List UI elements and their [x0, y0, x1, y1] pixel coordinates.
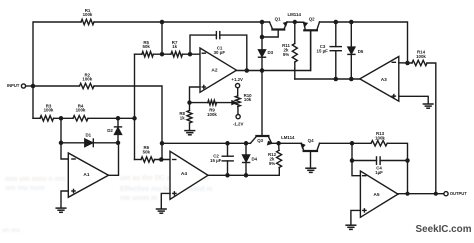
svg-text:+1.2V: +1.2V [231, 77, 243, 82]
wire A3 plus with ground [399, 96, 433, 108]
resistor R6 [141, 145, 155, 162]
label LM114 bottom [281, 135, 295, 140]
terminal INPUT [7, 83, 33, 88]
svg-text:D5: D5 [358, 49, 364, 54]
wire D3 vertical [260, 20, 265, 136]
svg-text:100k: 100k [83, 12, 93, 17]
wire C1 feedback [188, 35, 247, 70]
op-amp A3 [360, 57, 399, 102]
svg-text:Q4: Q4 [308, 138, 314, 143]
resistor R7 [171, 40, 183, 57]
op-amp A2 [200, 48, 237, 92]
wire A1 minus branch [59, 118, 69, 159]
transistor Q3 [250, 136, 271, 144]
wire R5 row [135, 52, 201, 57]
resistor R12 [268, 143, 282, 167]
resistor R1 [81, 8, 94, 25]
svg-text:INPUT: INPUT [7, 83, 20, 88]
capacitor C2 [210, 143, 233, 175]
svg-text:D2: D2 [107, 128, 113, 133]
wire Q3 Q4 row [160, 141, 251, 146]
wire R3R4 row [33, 116, 137, 121]
resistor R5 [142, 40, 153, 57]
wire A5 output row [398, 192, 444, 196]
resistor R8 with ground [179, 103, 194, 135]
svg-text:5%: 5% [283, 52, 289, 57]
svg-text:OUTPUT: OUTPUT [450, 191, 467, 196]
node R8 R9 [187, 100, 191, 104]
resistor R2 [80, 72, 95, 88]
label SeekIC.com [416, 224, 472, 235]
wire top rail and left vertical [33, 22, 408, 118]
svg-text:1k: 1k [172, 44, 177, 49]
svg-text:A3: A3 [381, 77, 387, 83]
svg-text:nm umm m: nm umm m [120, 195, 157, 202]
op-amp A5 [360, 171, 398, 217]
terminal -1.2V [233, 115, 244, 127]
svg-text:Q1: Q1 [275, 16, 281, 21]
svg-text:A5: A5 [373, 192, 379, 198]
wire A5 plus with ground [346, 210, 360, 229]
diode D1 [85, 133, 94, 147]
capacitor C3 [317, 20, 342, 79]
svg-text:LM114: LM114 [281, 135, 295, 140]
wire A5 minus branch [350, 143, 361, 175]
resistor R3 [40, 103, 54, 121]
svg-text:100k: 100k [416, 54, 426, 59]
svg-text:15 µF: 15 µF [317, 49, 329, 54]
svg-text:Q2: Q2 [309, 17, 315, 22]
wire Q4 collector to A5 [320, 141, 372, 146]
svg-text:100k: 100k [207, 112, 217, 117]
terminal +1.2V [231, 77, 243, 96]
svg-text:Q3: Q3 [257, 138, 263, 143]
resistor R11 [282, 22, 297, 79]
wire R6 row [135, 157, 171, 162]
capacitor C1 [214, 32, 226, 55]
wire Q3 Q4 mid [272, 141, 302, 146]
op-amp A1 [68, 153, 108, 197]
svg-text:D4: D4 [251, 157, 257, 162]
svg-text:1k: 1k [180, 115, 185, 120]
op-amp A4 [170, 151, 208, 199]
node input junction [31, 84, 36, 89]
svg-text:100k: 100k [44, 108, 54, 113]
svg-text:100k: 100k [82, 77, 92, 82]
svg-text:30 pF: 30 pF [214, 50, 226, 55]
svg-text:100k: 100k [375, 136, 385, 141]
wire A1 output [109, 143, 119, 176]
svg-text:1µF: 1µF [375, 170, 383, 175]
wire A4 output [208, 168, 279, 178]
resistor R4 [73, 103, 88, 121]
resistor R9 [190, 100, 236, 117]
transistor Q1 [262, 16, 287, 37]
wire D1 row [61, 141, 120, 146]
svg-text:D1: D1 [85, 133, 91, 138]
svg-text:SeekIC.com: SeekIC.com [416, 224, 472, 235]
diode D5 [348, 20, 364, 79]
diode D3 [259, 50, 274, 57]
ground A1 [56, 208, 66, 212]
ground Q4 [306, 168, 316, 172]
svg-text:A2: A2 [211, 67, 217, 73]
ground A4 [157, 209, 167, 213]
svg-text:A1: A1 [83, 172, 89, 178]
svg-text:mm um mnu n nm: mm um mnu n nm [5, 176, 65, 183]
svg-text:A4: A4 [181, 171, 187, 177]
diode D2 [107, 118, 121, 143]
label LM114 top [287, 12, 301, 17]
svg-text:5%: 5% [269, 161, 275, 166]
resistor R13 [371, 131, 408, 194]
potentiometer R10 [235, 93, 252, 115]
wire mid-left vertical [134, 54, 136, 159]
svg-text:D3: D3 [267, 50, 273, 55]
svg-text:Effective mu be extended m: Effective mu be extended m [120, 186, 213, 193]
svg-text:-1.2V: -1.2V [233, 122, 244, 127]
svg-text:100k: 100k [76, 108, 86, 113]
resistor R14 [412, 50, 436, 194]
wire A2 plus [190, 87, 201, 103]
capacitor C4 [352, 157, 410, 175]
svg-text:15 µF: 15 µF [210, 158, 222, 163]
svg-text:un mu: un mu [2, 228, 20, 234]
diode D4 [243, 143, 258, 175]
svg-text:10k: 10k [244, 97, 252, 102]
transistor Q2 [295, 17, 320, 71]
wire A3 output row [295, 77, 360, 82]
wire A4 plus [161, 193, 170, 208]
wire top junction drop [160, 20, 165, 54]
svg-text:LM114: LM114 [287, 12, 301, 17]
wire input row [33, 86, 162, 160]
node Q1 Q2 emitters [293, 20, 297, 24]
wire A3 minus row [399, 61, 412, 66]
transistor Q4 [301, 138, 319, 168]
svg-text:50k: 50k [143, 149, 151, 154]
wire A1 plus [61, 191, 68, 208]
svg-text:50k: 50k [143, 44, 151, 49]
terminal OUTPUT [444, 191, 467, 196]
wire A2 output row [237, 30, 311, 72]
svg-text:nm mu num: nm mu num [5, 185, 45, 192]
